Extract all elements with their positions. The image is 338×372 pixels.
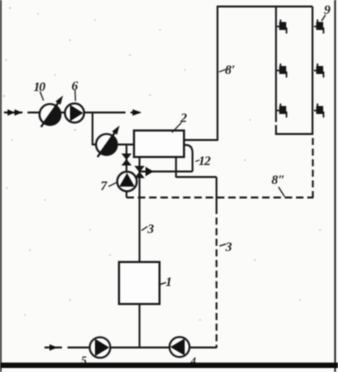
svg-text:6: 6 xyxy=(72,78,79,93)
svg-text:10: 10 xyxy=(34,79,47,94)
svg-text:1: 1 xyxy=(166,274,173,289)
svg-text:8″: 8″ xyxy=(272,172,286,187)
svg-text:3: 3 xyxy=(225,239,233,254)
svg-text:9: 9 xyxy=(324,2,331,17)
svg-text:7: 7 xyxy=(101,178,108,193)
svg-text:12: 12 xyxy=(199,153,212,168)
svg-text:8′: 8′ xyxy=(225,62,236,77)
svg-text:3: 3 xyxy=(147,221,155,236)
svg-text:4: 4 xyxy=(190,356,197,368)
svg-text:2: 2 xyxy=(180,110,188,125)
svg-text:5: 5 xyxy=(81,355,87,367)
